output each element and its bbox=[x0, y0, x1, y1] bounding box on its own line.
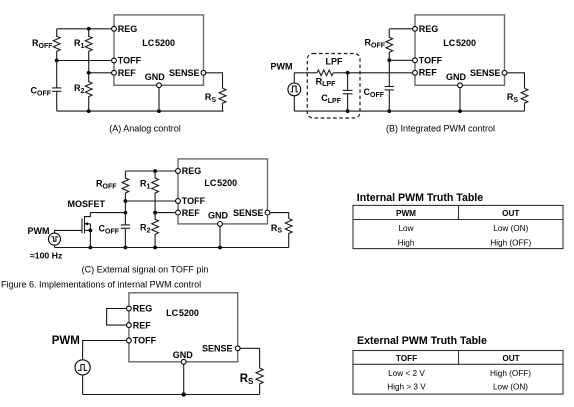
pin REF bbox=[112, 70, 117, 75]
svg-text:SENSE: SENSE bbox=[470, 68, 501, 78]
svg-text:Low: Low bbox=[398, 224, 413, 233]
svg-text:LC 5200: LC 5200 bbox=[166, 308, 199, 318]
svg-text:REG: REG bbox=[118, 24, 138, 34]
node junction GND/rail bbox=[182, 392, 186, 396]
svg-text:(A) Analog control: (A) Analog control bbox=[109, 124, 181, 134]
wire ROFF top to REG pin bbox=[389, 28, 415, 30]
svg-text:OUT: OUT bbox=[502, 209, 519, 218]
svg-text:TOFF: TOFF bbox=[419, 56, 443, 66]
svg-text:Low (ON): Low (ON) bbox=[493, 224, 528, 233]
pin GND bbox=[458, 83, 463, 88]
resistor RS bbox=[521, 88, 528, 111]
svg-text:(B) Integrated PWM control: (B) Integrated PWM control bbox=[386, 124, 495, 134]
wire TOFF net bbox=[83, 341, 129, 360]
resistor R1 bbox=[152, 171, 159, 213]
resistor RLPF bbox=[317, 70, 333, 76]
node junction COFF/rail bbox=[387, 109, 391, 113]
wire REG net bbox=[125, 170, 178, 172]
wire SENSE net bbox=[204, 73, 223, 88]
wire ground rail bbox=[83, 394, 260, 396]
node junction source/rail bbox=[89, 246, 93, 250]
svg-text:(C) External signal on TOFF pi: (C) External signal on TOFF pin bbox=[82, 264, 209, 274]
wire SENSE net bbox=[238, 348, 260, 368]
wire ground rail bbox=[57, 110, 224, 112]
node junction CLPF/rail bbox=[346, 109, 350, 113]
node junction drain/COFF bbox=[124, 211, 128, 215]
source V1 pulse generator bbox=[288, 83, 301, 96]
table Internal PWM column divider bbox=[458, 205, 460, 219]
svg-text:High (OFF): High (OFF) bbox=[490, 238, 531, 247]
svg-text:Internal PWM Truth Table: Internal PWM Truth Table bbox=[357, 192, 483, 204]
svg-text:LPF: LPF bbox=[326, 56, 344, 66]
resistor R2 bbox=[152, 213, 159, 248]
pin GND bbox=[181, 359, 186, 364]
table External PWM header separator bbox=[353, 363, 563, 365]
wire TOFF net bbox=[389, 59, 415, 61]
resistor ROFF bbox=[386, 29, 393, 61]
node junction R1/R2/REF bbox=[153, 211, 157, 215]
svg-text:Figure 6. Implementations of i: Figure 6. Implementations of internal PW… bbox=[1, 279, 201, 289]
svg-text:LC 5200: LC 5200 bbox=[204, 178, 237, 188]
wire GND lead bbox=[219, 224, 221, 248]
wire gate lead bbox=[55, 230, 82, 233]
wire ground rail bbox=[294, 110, 524, 112]
wire GND lead bbox=[183, 362, 185, 395]
wire REF net bbox=[89, 72, 114, 74]
svg-text:REF: REF bbox=[118, 68, 137, 78]
wire GND lead bbox=[459, 85, 461, 111]
node junction R2/rail bbox=[87, 109, 91, 113]
wire source to rail bbox=[82, 375, 84, 395]
wire ground rail bbox=[55, 247, 289, 249]
svg-text:GND: GND bbox=[446, 72, 467, 82]
svg-text:MOSFET: MOSFET bbox=[68, 199, 106, 209]
svg-text:SENSE: SENSE bbox=[202, 344, 233, 354]
node junction R1 top bbox=[87, 27, 91, 31]
wire TOFF net bbox=[125, 200, 178, 202]
pin REG bbox=[112, 26, 117, 31]
pin REF bbox=[176, 210, 181, 215]
op-amp U2 LC5200 box bbox=[415, 15, 505, 85]
pin REG bbox=[126, 306, 131, 311]
wire MOSFET drain to COFF bbox=[90, 212, 125, 214]
svg-text:LC 5200: LC 5200 bbox=[142, 38, 175, 48]
LPF dashed box bbox=[307, 54, 360, 119]
node junction RLPF/CLPF bbox=[346, 71, 350, 75]
svg-text:GND: GND bbox=[173, 350, 194, 360]
node junction GND/rail bbox=[157, 109, 161, 113]
svg-text:SENSE: SENSE bbox=[169, 68, 200, 78]
svg-text:REF: REF bbox=[182, 208, 201, 218]
wire source to rail bbox=[293, 96, 295, 111]
pin SENSE bbox=[502, 70, 507, 75]
pin TOFF bbox=[176, 199, 181, 204]
node junction COFF/rail bbox=[124, 246, 128, 250]
wire SENSE net bbox=[505, 73, 525, 88]
node junction ROFF/COFF bbox=[124, 199, 128, 203]
svg-text:PWM: PWM bbox=[52, 335, 80, 347]
node junction R1 top bbox=[153, 169, 157, 173]
wire GND lead bbox=[158, 85, 160, 111]
node junction ROFF/COFF bbox=[55, 59, 59, 63]
resistor RS bbox=[219, 88, 226, 111]
svg-text:High (OFF): High (OFF) bbox=[490, 369, 531, 378]
svg-text:REG: REG bbox=[419, 24, 439, 34]
svg-text:REF: REF bbox=[133, 320, 152, 330]
capacitor COFF bbox=[364, 60, 394, 111]
table External PWM frame bbox=[353, 351, 563, 395]
table Internal PWM header separator bbox=[353, 219, 563, 221]
node junction GND/rail bbox=[218, 246, 222, 250]
svg-text:TOFF: TOFF bbox=[182, 196, 206, 206]
node junction R1/R2/REF bbox=[87, 71, 91, 75]
svg-text:PWM: PWM bbox=[28, 226, 50, 236]
svg-text:High > 3 V: High > 3 V bbox=[387, 383, 426, 392]
pin SENSE bbox=[235, 346, 240, 351]
svg-text:TOFF: TOFF bbox=[118, 56, 142, 66]
wire RLPF to REF pin bbox=[333, 72, 415, 74]
svg-text:REG: REG bbox=[133, 304, 153, 314]
capacitor COFF bbox=[31, 61, 62, 112]
svg-text:PWM: PWM bbox=[396, 209, 416, 218]
wire REG net (ROFF top to REG pin) bbox=[57, 28, 114, 30]
op-amp U3 LC5200 box bbox=[178, 159, 268, 224]
svg-text:Low < 2 V: Low < 2 V bbox=[388, 369, 425, 378]
svg-text:GND: GND bbox=[145, 72, 166, 82]
svg-text:REF: REF bbox=[419, 68, 438, 78]
svg-text:REG: REG bbox=[182, 166, 202, 176]
pin TOFF bbox=[126, 338, 131, 343]
wire REF net bbox=[155, 212, 178, 214]
svg-text:SENSE: SENSE bbox=[233, 208, 264, 218]
wire source to LPF bbox=[294, 73, 317, 83]
wire TOFF net bbox=[57, 60, 114, 62]
node junction ROFF/COFF bbox=[387, 58, 391, 62]
pin TOFF bbox=[413, 58, 418, 63]
svg-text:Low (ON): Low (ON) bbox=[493, 383, 528, 392]
pin TOFF bbox=[112, 58, 117, 63]
table External PWM column divider bbox=[458, 351, 460, 365]
node junction GND/rail bbox=[458, 109, 462, 113]
svg-text:TOFF: TOFF bbox=[133, 336, 157, 346]
svg-text:LC 5200: LC 5200 bbox=[443, 38, 476, 48]
capacitor COFF bbox=[99, 201, 131, 248]
wire SENSE net bbox=[268, 213, 289, 219]
transistor Q1 MOSFET bbox=[68, 199, 106, 248]
source V2 pulse generator bbox=[49, 233, 61, 245]
wire source to rail bbox=[54, 245, 56, 247]
svg-text:External PWM Truth Table: External PWM Truth Table bbox=[357, 335, 487, 347]
resistor R2 bbox=[85, 73, 92, 111]
resistor RS bbox=[256, 368, 263, 395]
source V3 pulse generator bbox=[75, 360, 90, 375]
pin SENSE bbox=[201, 70, 206, 75]
resistor ROFF bbox=[53, 29, 60, 61]
pin REF bbox=[126, 323, 131, 328]
resistor ROFF bbox=[122, 171, 129, 201]
wire REG-REF short loop bbox=[107, 309, 129, 326]
node junction R2/rail bbox=[153, 246, 157, 250]
op-amp U4 LC5200 box bbox=[129, 293, 238, 362]
resistor R1 bbox=[85, 29, 92, 73]
svg-text:OUT: OUT bbox=[502, 354, 519, 363]
pin REF bbox=[413, 70, 418, 75]
table Internal PWM frame bbox=[353, 205, 563, 248]
pin SENSE bbox=[265, 210, 270, 215]
svg-text:TOFF: TOFF bbox=[396, 354, 417, 363]
op-amp U1 LC5200 box bbox=[114, 15, 204, 85]
svg-text:High: High bbox=[398, 238, 415, 247]
pin GND bbox=[157, 83, 162, 88]
pin REG bbox=[176, 169, 181, 174]
svg-text:PWM: PWM bbox=[271, 61, 293, 71]
svg-text:GND: GND bbox=[208, 211, 229, 221]
capacitor CLPF bbox=[321, 73, 352, 111]
pin GND bbox=[218, 222, 223, 227]
pin REG bbox=[413, 26, 418, 31]
resistor RS bbox=[285, 219, 292, 248]
svg-text:≈100 Hz: ≈100 Hz bbox=[30, 251, 63, 261]
